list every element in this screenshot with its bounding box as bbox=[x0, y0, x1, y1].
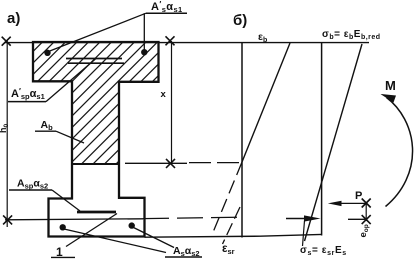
svg-text:P: P bbox=[355, 190, 362, 202]
underline of Ab bbox=[35, 130, 56, 132]
P arrowhead bbox=[328, 201, 342, 206]
svg-text:A′sαs1: A′sαs1 bbox=[151, 0, 183, 14]
strain diagram vertical bbox=[241, 43, 243, 238]
tendon level dashed line bbox=[143, 217, 242, 218]
svg-text:а): а) bbox=[7, 10, 20, 27]
P dim level line bbox=[348, 218, 366, 220]
leader A's to left dot bbox=[49, 13, 147, 51]
moment arc bbox=[386, 98, 413, 207]
leader sigma_s to label bbox=[303, 221, 305, 247]
underline of Asp as2 bbox=[9, 189, 52, 191]
x dimension line bbox=[171, 41, 173, 164]
rebar dot A's right bbox=[141, 49, 147, 55]
rebar dot A's left bbox=[44, 50, 50, 56]
svg-text:x: x bbox=[161, 89, 167, 100]
top fiber line bbox=[5, 42, 369, 44]
P dim vertical bbox=[365, 202, 367, 221]
P tick top bbox=[362, 199, 371, 208]
svg-text:A′spαs1: A′spαs1 bbox=[11, 87, 45, 101]
svg-text:eop: eop bbox=[358, 224, 370, 237]
sigma_s arrowhead bbox=[304, 215, 321, 221]
svg-text:Ab: Ab bbox=[41, 119, 54, 132]
leader right dot to As label bbox=[133, 227, 175, 248]
x tick bottom bbox=[166, 159, 175, 168]
neutral axis line (hatch bottom) bbox=[71, 163, 120, 165]
svg-text:εb: εb bbox=[258, 31, 267, 44]
svg-text:M: M bbox=[385, 78, 396, 93]
bottom prestressing bar Asp bbox=[77, 211, 116, 214]
neutral axis extension line bbox=[125, 162, 187, 164]
leader A'sp to bar bbox=[46, 59, 96, 102]
svg-text:σb= εbEb,red: σb= εbEb,red bbox=[322, 29, 381, 41]
second dashed slant bbox=[223, 207, 241, 244]
P tick bottom bbox=[362, 215, 371, 224]
strain slant dashed continuation bbox=[212, 162, 243, 236]
leader left dot to As label bbox=[64, 229, 166, 253]
concrete section outline bbox=[33, 42, 159, 237]
svg-text:σs= εsrEs: σs= εsrEs bbox=[300, 245, 347, 257]
tendon level line bbox=[5, 219, 143, 220]
h0 tick top bbox=[2, 37, 11, 46]
strain diagram slant bbox=[242, 43, 290, 162]
h0 tick bottom bbox=[3, 215, 12, 224]
svg-text:Aspαs2: Aspαs2 bbox=[17, 178, 48, 191]
moment arrowhead bbox=[381, 94, 397, 103]
svg-text:εsr: εsr bbox=[222, 243, 235, 256]
underline of 1 bbox=[51, 256, 75, 258]
stress diagram vertical bbox=[321, 43, 323, 236]
h0 dimension line bbox=[6, 40, 8, 227]
leader Asp to bar bbox=[52, 190, 80, 211]
bottom fiber extension line bbox=[145, 234, 322, 237]
underline of As as2 bbox=[165, 256, 202, 258]
svg-text:Asαs2: Asαs2 bbox=[173, 245, 200, 258]
stress diagram slant bbox=[305, 44, 363, 241]
svg-text:h0: h0 bbox=[0, 124, 10, 134]
rebar dot As right bbox=[129, 222, 135, 228]
rebar dot As left bbox=[60, 224, 66, 230]
top prestressing bar A'sp line 2 bbox=[68, 62, 124, 64]
x tick top bbox=[166, 36, 175, 45]
P arrow shaft bbox=[338, 202, 366, 204]
leader Ab to web bbox=[56, 131, 84, 143]
leader A's to right dot bbox=[143, 13, 145, 49]
underline of A's as1 bbox=[146, 12, 187, 14]
leader 1 to bar bbox=[66, 214, 117, 247]
underline of A'sp as1 bbox=[8, 101, 46, 103]
neutral axis dashed line bbox=[189, 162, 242, 164]
hatching of compression zone bbox=[0, 30, 250, 170]
svg-text:б): б) bbox=[233, 12, 247, 29]
sigma_s arrow shaft bbox=[286, 218, 308, 220]
top prestressing bar A'sp line 1 bbox=[66, 58, 122, 60]
